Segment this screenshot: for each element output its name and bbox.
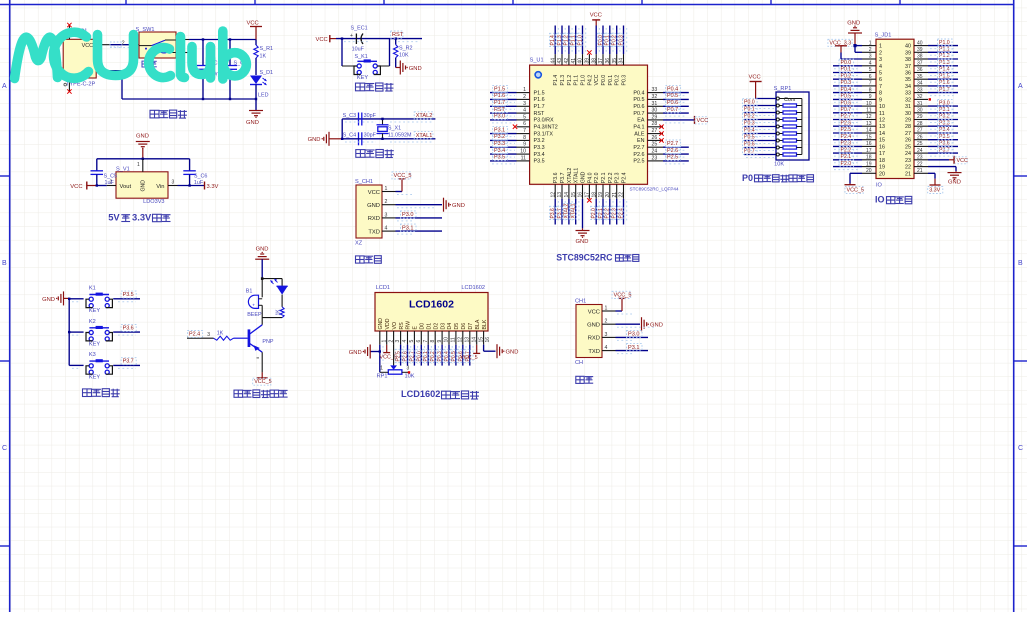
wire P1.2 (top) xyxy=(568,26,570,55)
net label P1.1 (rotated) xyxy=(570,33,576,46)
svg-text:2: 2 xyxy=(605,319,608,325)
svg-text:5: 5 xyxy=(879,71,882,77)
wire K2 to P3.6 xyxy=(113,331,140,333)
svg-text:P2.6: P2.6 xyxy=(841,120,852,126)
net label P2.2 (rotated, bottom) xyxy=(604,206,610,219)
svg-text:11: 11 xyxy=(879,111,885,117)
svg-text:P3.3: P3.3 xyxy=(494,141,505,147)
net label P0.5 (LCD rotated) xyxy=(451,349,457,362)
pin 7 stub xyxy=(517,133,530,135)
key K3 xyxy=(86,352,112,380)
svg-text:GND: GND xyxy=(308,137,321,143)
svg-text:P1.4: P1.4 xyxy=(939,67,950,73)
svg-text:17: 17 xyxy=(879,151,885,157)
net label P3.6 (JD1) xyxy=(938,140,953,147)
wire P2.6 (LCD) xyxy=(407,345,409,366)
svg-text:1K: 1K xyxy=(217,330,224,336)
switch bottom output stub with no-connect xyxy=(176,50,194,54)
svg-text:P2.5: P2.5 xyxy=(841,127,852,133)
svg-text:RXD: RXD xyxy=(368,216,380,222)
wire node split xyxy=(261,277,282,297)
capacitor S_C3 30pF xyxy=(343,113,377,126)
svg-text:1: 1 xyxy=(385,186,388,192)
switch S_SW1 xyxy=(136,27,177,58)
ground symbol (alarm) xyxy=(255,247,269,279)
svg-text:3: 3 xyxy=(385,212,388,218)
wire bus to K1 xyxy=(69,298,83,300)
svg-text:14: 14 xyxy=(471,337,477,343)
title LCD1602显示模块 xyxy=(401,389,479,399)
wire pin3 P3.0 xyxy=(616,336,649,338)
svg-text:5V: 5V xyxy=(108,212,120,223)
wire P1.6 xyxy=(490,98,517,100)
svg-text:VCC: VCC xyxy=(594,74,600,85)
pin 20 stub (bottom) xyxy=(609,184,611,199)
wire VCC node down to resistor xyxy=(255,40,257,46)
pin 27 stub xyxy=(648,133,664,135)
svg-text:S_C5: S_C5 xyxy=(104,174,118,180)
svg-text:P2.4: P2.4 xyxy=(841,134,852,140)
svg-text:P3.0/RX: P3.0/RX xyxy=(534,118,554,124)
ground symbol (LCD left) xyxy=(365,345,370,359)
svg-text:BLK: BLK xyxy=(482,319,488,329)
svg-text:P0.7: P0.7 xyxy=(744,149,755,155)
svg-text:XTAL2: XTAL2 xyxy=(564,203,570,218)
wire P0.4 (LCD) xyxy=(448,345,450,366)
svg-text:P2.2: P2.2 xyxy=(608,172,614,183)
svg-text:P0.7: P0.7 xyxy=(667,107,678,113)
junction crystal bottom xyxy=(381,138,383,140)
wire P1.6 (JD1 right) xyxy=(928,85,958,87)
net label P0.1 (LCD rotated) xyxy=(423,349,429,362)
power port 3.3V (JD1) xyxy=(928,187,943,194)
capacitor S_C4 30pF xyxy=(343,132,377,145)
base wire and pin 3 xyxy=(187,332,248,338)
wire GND pin xyxy=(582,199,584,229)
net label P2.4 (rotated, bottom) xyxy=(618,206,624,219)
wire P0.7 (RP1) xyxy=(744,154,776,156)
wire P1.7 (JD1 right) xyxy=(928,92,958,94)
svg-text:D4: D4 xyxy=(447,323,453,330)
regulator S_V1 LDO3V3 xyxy=(116,159,168,205)
svg-text:GND: GND xyxy=(650,323,663,329)
wire pin3 P3.0 xyxy=(396,217,443,219)
wire top rail switch to VCC node xyxy=(189,39,256,41)
junction node cap2 top xyxy=(229,38,231,40)
svg-text:3: 3 xyxy=(407,365,410,371)
net label P2.0 (rotated, bottom) xyxy=(591,206,597,219)
svg-text:4: 4 xyxy=(402,340,408,343)
left pin names xyxy=(534,90,558,164)
net label P2.4 (alarm) xyxy=(188,331,203,338)
wire P3.1 (JD1 right) xyxy=(928,112,958,114)
svg-text:3.3V: 3.3V xyxy=(929,188,940,194)
svg-text:P2.5: P2.5 xyxy=(396,351,402,362)
svg-text:P3.0: P3.0 xyxy=(402,212,414,218)
wire VCC to Vout xyxy=(96,184,107,186)
svg-text:RST: RST xyxy=(494,107,505,113)
net label P2.5 (JD1) xyxy=(839,126,854,133)
svg-text:P3.4: P3.4 xyxy=(534,152,545,158)
net label P0.2 (rotated) xyxy=(611,33,617,46)
svg-text:ALE: ALE xyxy=(634,131,645,137)
net label P0.1 (rotated) xyxy=(604,33,610,46)
wire P3.5 xyxy=(490,160,517,162)
capacitor S_C5 1uF xyxy=(91,159,118,186)
wire emitter to VCC_5 xyxy=(257,352,268,378)
pin 3 stub xyxy=(602,332,616,338)
IC U1 body xyxy=(530,58,648,185)
ground symbol above JD1 xyxy=(847,21,862,46)
net label P3.0 xyxy=(401,211,417,218)
svg-text:P1.1: P1.1 xyxy=(571,35,577,46)
wire P2.2 (bottom) xyxy=(609,199,611,225)
wire GND to pins 1-2 xyxy=(853,44,862,52)
svg-text:P1.6: P1.6 xyxy=(494,93,505,99)
wire K3 to P3.7 xyxy=(113,364,140,366)
svg-text:P3.2: P3.2 xyxy=(494,134,505,140)
svg-text:8: 8 xyxy=(430,340,436,343)
wire LDO top rail xyxy=(97,158,190,160)
svg-text:RP1: RP1 xyxy=(377,374,388,380)
svg-text:23: 23 xyxy=(905,158,911,164)
svg-text:30pF: 30pF xyxy=(364,113,377,119)
svg-text:P3.5: P3.5 xyxy=(494,155,505,161)
MCUclub logo xyxy=(15,31,247,79)
net label P3.4 xyxy=(493,147,508,154)
svg-text:TXD: TXD xyxy=(588,349,600,355)
wire P3.0 (JD1 right) xyxy=(928,105,958,107)
wire pin2 elbow to bottom rail xyxy=(110,71,257,99)
net label P3.2 xyxy=(493,133,508,140)
svg-text:1K: 1K xyxy=(276,309,282,316)
svg-text:S_SW1: S_SW1 xyxy=(136,27,155,33)
right pin numbers 33-23 xyxy=(652,87,658,161)
net label P1.3 (JD1) xyxy=(938,59,953,66)
net label XTAL1 (rotated, bottom) xyxy=(570,203,576,219)
svg-text:P4.0: P4.0 xyxy=(587,172,593,183)
svg-text:P2.4: P2.4 xyxy=(618,208,624,219)
connector S_JD1 body xyxy=(875,33,914,189)
net label P1.2 (rotated) xyxy=(563,33,569,46)
wire P3.6 (JD1 right) xyxy=(928,145,958,147)
svg-text:KEY: KEY xyxy=(89,308,100,314)
wire P0.6 xyxy=(663,105,689,107)
pin 31 stub xyxy=(648,105,664,107)
wire P3.3 xyxy=(490,146,517,148)
power port VCC (RP1) xyxy=(749,75,762,99)
wire P2.5 (JD1 left) xyxy=(833,132,862,134)
wire Vin to 3.3V xyxy=(178,182,205,190)
title IO拓展口 xyxy=(875,195,912,205)
svg-text:10K: 10K xyxy=(399,53,409,59)
wire P3.6 (bottom) xyxy=(554,199,556,225)
svg-text:2: 2 xyxy=(879,50,882,56)
resistor element 8 xyxy=(776,153,802,156)
svg-text:P2.2: P2.2 xyxy=(605,208,611,219)
pin 32 stub xyxy=(648,98,664,100)
svg-text:P0.4: P0.4 xyxy=(667,86,678,92)
net label P1.2 (JD1) xyxy=(938,52,953,59)
junction node cap1 bottom xyxy=(202,98,204,100)
wire pin1 to VCC_5 xyxy=(396,179,407,192)
net label P0.3 (RP1) xyxy=(743,120,758,127)
svg-text:VCC: VCC xyxy=(316,37,328,43)
net label P1.5 xyxy=(493,85,508,92)
wire P0.5 (RP1) xyxy=(744,140,776,142)
wire P0.6 (RP1) xyxy=(744,147,776,149)
title STC89C52RC主芯片 xyxy=(556,253,639,263)
net label P2.6 (JD1) xyxy=(839,120,854,127)
reset circuit block xyxy=(316,26,423,92)
svg-text:8: 8 xyxy=(879,91,882,97)
net label XTAL2 xyxy=(414,112,433,119)
svg-text:P2.7: P2.7 xyxy=(667,141,678,147)
svg-text:STC89C52RC_LQFP44: STC89C52RC_LQFP44 xyxy=(630,187,679,192)
JD1 right stubs xyxy=(914,46,928,174)
wire XTAL2 (bottom) xyxy=(568,199,570,225)
svg-text:P0.4: P0.4 xyxy=(633,90,644,96)
Com pin and bus xyxy=(776,97,802,155)
svg-text:P0.2: P0.2 xyxy=(744,114,755,120)
wire pin21 to 3.3V xyxy=(928,173,941,185)
svg-text:BLA: BLA xyxy=(475,319,481,329)
svg-text:21: 21 xyxy=(905,171,911,177)
net label P2.6 (LCD rotated) xyxy=(402,349,408,362)
svg-text:P2.0: P2.0 xyxy=(591,208,597,219)
net label P2.3 (JD1) xyxy=(839,140,854,147)
svg-text:D2: D2 xyxy=(433,323,439,330)
svg-text:P4.2: P4.2 xyxy=(587,75,593,86)
pin 12 stub (bottom) xyxy=(554,184,556,199)
wire P1.5 (JD1 right) xyxy=(928,78,958,80)
svg-text:P3.1: P3.1 xyxy=(939,107,950,113)
svg-text:D7: D7 xyxy=(468,323,474,330)
power port VCC (JD1) xyxy=(955,157,968,164)
svg-text:P0.0: P0.0 xyxy=(601,75,607,86)
title 串口 xyxy=(576,376,584,383)
wire buzzer bottom xyxy=(262,305,282,317)
net label P0.6 (JD1) xyxy=(839,100,854,107)
right pin names xyxy=(633,90,644,164)
net label P1.3 (rotated) xyxy=(556,33,562,46)
svg-text:13: 13 xyxy=(879,124,885,130)
wire RST xyxy=(490,112,517,114)
svg-text:10: 10 xyxy=(879,104,885,110)
net label P0.2 (JD1) xyxy=(839,73,854,80)
svg-text:P3.3: P3.3 xyxy=(939,120,950,126)
MCU block STC89C52RC xyxy=(490,13,708,263)
wire P0.3 (top) xyxy=(623,26,625,55)
wire pin20 to VCC_5 xyxy=(845,173,863,184)
net label P2.3 (rotated, bottom) xyxy=(611,206,617,219)
svg-text:P2.1: P2.1 xyxy=(598,208,604,219)
wire VCC_3.3 to pin 3 xyxy=(841,53,862,60)
net label P3.5 xyxy=(493,154,508,161)
resistor element 4 xyxy=(776,125,802,128)
net label P1.5 (JD1) xyxy=(938,73,953,80)
pin 39 stub (top) xyxy=(588,54,590,65)
svg-text:3: 3 xyxy=(605,332,608,338)
svg-text:D1: D1 xyxy=(426,323,432,330)
svg-text:P2.5: P2.5 xyxy=(667,155,678,161)
junction node R2 top xyxy=(395,37,397,39)
wire P0.3 (RP1) xyxy=(744,126,776,128)
net label P3.5 (keys) xyxy=(121,291,136,298)
switch input stub xyxy=(131,44,139,46)
svg-text:RXD: RXD xyxy=(588,336,600,342)
wire VCC to Com pin xyxy=(756,98,776,100)
svg-text:7: 7 xyxy=(879,84,882,90)
svg-text:VCC: VCC xyxy=(590,13,602,19)
svg-text:GND: GND xyxy=(948,180,961,186)
svg-text:VO: VO xyxy=(392,322,398,330)
resistor element 7 xyxy=(776,146,802,149)
wire P0.1 (LCD) xyxy=(427,345,429,366)
svg-text:15: 15 xyxy=(478,337,484,343)
svg-text:VCC: VCC xyxy=(82,43,93,49)
wire pin23 to VCC xyxy=(928,156,954,164)
svg-text:EN: EN xyxy=(637,138,645,144)
power port VCC_5 xyxy=(392,172,412,179)
svg-text:6: 6 xyxy=(879,77,882,83)
svg-text:P1.3: P1.3 xyxy=(560,75,566,86)
resistor element 1 xyxy=(776,104,802,107)
svg-text:S_C4: S_C4 xyxy=(343,133,357,139)
svg-text:P0.5: P0.5 xyxy=(841,94,852,100)
svg-text:S_D1: S_D1 xyxy=(260,70,274,76)
wire P3.5 (JD1 right) xyxy=(928,139,958,141)
bottom pin names (rotated) xyxy=(553,168,627,184)
net label P0.6 (LCD rotated) xyxy=(457,349,463,362)
svg-text:+: + xyxy=(252,303,255,308)
svg-text:K3: K3 xyxy=(89,352,96,358)
title 电源电路 xyxy=(150,110,159,118)
LCD pin numbers 1-16 (rotated) xyxy=(381,337,491,343)
buzzer B1 BEEP xyxy=(246,289,262,319)
wire VCC to RST rail xyxy=(336,38,422,40)
svg-text:S_C6: S_C6 xyxy=(194,174,208,180)
label 开关 under switch xyxy=(142,61,149,67)
svg-text:11.0592M: 11.0592M xyxy=(388,132,412,138)
ground symbol (crystal) xyxy=(308,132,343,146)
pin 3 stub (Vin) xyxy=(168,180,178,186)
svg-text:VCC_5: VCC_5 xyxy=(614,293,632,299)
wire P3.3 (JD1 right) xyxy=(928,125,958,127)
title 5V转3.3V电路 xyxy=(108,212,170,223)
wire P2.0 (JD1 left) xyxy=(833,166,862,168)
svg-text:1: 1 xyxy=(137,162,140,168)
pin 40 stub (top) xyxy=(582,54,584,65)
svg-text:P3.5: P3.5 xyxy=(939,134,950,140)
wire P0.4 (RP1) xyxy=(744,133,776,135)
svg-text:D0: D0 xyxy=(420,323,426,330)
ground symbol xyxy=(642,317,663,331)
net label P3.6 (keys) xyxy=(121,324,136,331)
svg-text:Vin: Vin xyxy=(156,184,164,190)
net label P0.2 (RP1) xyxy=(743,113,758,120)
wire P2.4 (bottom) xyxy=(623,199,625,225)
wire P0.2 (LCD) xyxy=(434,345,436,366)
svg-text:3.3V: 3.3V xyxy=(132,212,152,223)
LED D1 (alarm) xyxy=(270,279,287,295)
pin 17 stub (bottom) xyxy=(588,184,590,199)
wire LCD VO to potentiometer xyxy=(393,345,395,366)
switch top output stub xyxy=(176,39,189,41)
wire P0.6 (LCD) xyxy=(462,345,464,366)
LCD pin stubs xyxy=(380,331,484,345)
svg-text:P0.3: P0.3 xyxy=(622,75,628,86)
pin 10 stub xyxy=(517,153,530,155)
svg-text:Com: Com xyxy=(784,97,796,103)
alarm circuit block xyxy=(187,247,288,398)
svg-text:P0.2: P0.2 xyxy=(612,35,618,46)
junction crystal gnd xyxy=(341,138,343,140)
LCD module block xyxy=(349,285,519,399)
wire P2.1 (bottom) xyxy=(602,199,604,225)
wire bus to K2 xyxy=(69,331,83,333)
svg-text:VCC_5: VCC_5 xyxy=(380,355,397,361)
connector S_TC1 TYPE-C-2P xyxy=(63,29,96,88)
bus wire keys xyxy=(68,298,70,366)
wire LED to resistor xyxy=(281,295,283,307)
pin 35 stub (top) xyxy=(616,54,618,65)
wire P3.0 xyxy=(490,119,517,121)
wire pin4 P3.1 xyxy=(396,230,443,232)
wire P0.0 (LCD) xyxy=(420,345,422,366)
pin 1 stub xyxy=(602,305,616,311)
net label P0.1 (JD1) xyxy=(839,66,854,73)
svg-text:C: C xyxy=(2,445,7,452)
net label P2.7 xyxy=(666,140,681,147)
key S_K1 symbol xyxy=(354,59,380,80)
wire P0.0 (RP1) xyxy=(744,105,776,107)
wire P1.3 (JD1 right) xyxy=(928,65,958,67)
junction crystal top xyxy=(381,118,383,120)
wire P0.2 (top) xyxy=(616,26,618,55)
power port VCC (EA) xyxy=(695,117,708,124)
svg-text:2: 2 xyxy=(385,199,388,205)
net label P0.7 xyxy=(666,106,681,113)
svg-text:16: 16 xyxy=(485,337,491,343)
svg-text:22: 22 xyxy=(905,165,911,171)
svg-text:P3.5: P3.5 xyxy=(534,159,545,165)
title 下载口 xyxy=(356,256,365,263)
svg-text:P4.1: P4.1 xyxy=(633,125,644,131)
wire P3.4 (JD1 right) xyxy=(928,132,958,134)
svg-text:5: 5 xyxy=(409,340,415,343)
wire P0.5 (JD1 left) xyxy=(833,98,862,100)
net label P0.3 (LCD rotated) xyxy=(437,349,443,362)
wire P2.6 (JD1 left) xyxy=(833,125,862,127)
svg-text:P1.2: P1.2 xyxy=(564,35,570,46)
pin 14 stub (bottom) xyxy=(568,184,570,199)
svg-text:1: 1 xyxy=(380,365,383,371)
resistor element 3 xyxy=(776,118,802,121)
JD1 left pin numbers (inside) xyxy=(879,44,885,178)
svg-text:E: E xyxy=(413,326,419,330)
resistor S_R1 1K xyxy=(254,45,273,60)
resistor element 2 xyxy=(776,111,802,114)
wire LCD VDD to VCC_5 xyxy=(383,345,390,353)
svg-text:P2.1: P2.1 xyxy=(601,172,607,183)
svg-text:S_K1: S_K1 xyxy=(355,54,368,60)
svg-text:C: C xyxy=(1018,445,1023,452)
svg-text:VCC_5: VCC_5 xyxy=(394,173,412,179)
wire pin2 to GND xyxy=(616,323,641,325)
svg-text:IO: IO xyxy=(875,195,885,205)
svg-text:LDO3V3: LDO3V3 xyxy=(143,199,164,205)
